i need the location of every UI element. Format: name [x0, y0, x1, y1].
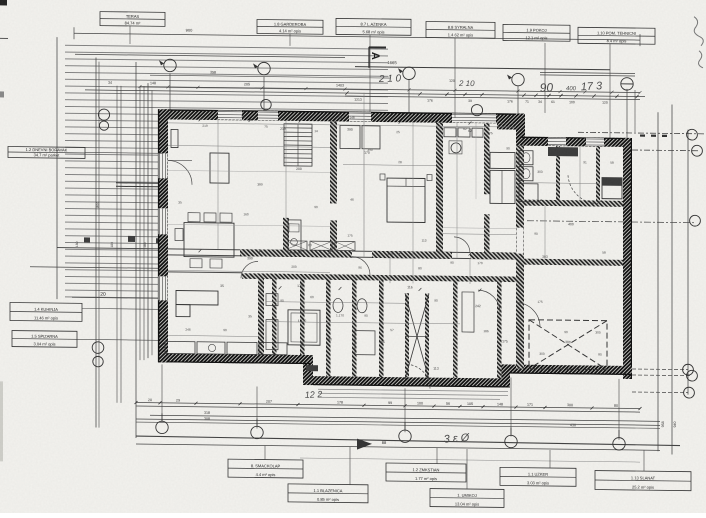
interior wall dining/bath vertical: [258, 278, 264, 354]
window openings top right wall: [548, 137, 566, 145]
room label box SMACKOLAP bottom: [228, 459, 303, 478]
bottom band top wall: [242, 273, 516, 282]
column marker mid top-left: [261, 99, 271, 110]
corridor wall leader across terrace: [57, 248, 168, 249]
dashed lines bottom right: [632, 368, 688, 371]
right vertical dimension line 1: [657, 112, 659, 451]
door arc hall: [478, 290, 500, 312]
sofa: [176, 291, 218, 306]
interior wall vertical main/right section: [516, 146, 524, 369]
tick slashes upper chain: [345, 91, 348, 94]
right section lower wall horizontal: [524, 259, 623, 266]
right vertical dimension line 3: [687, 130, 689, 395]
room label box SLANAT bottom: [595, 471, 691, 491]
right section wc cells: [519, 151, 533, 165]
door arc right section top: [568, 175, 598, 203]
column markers right edge: [687, 129, 698, 140]
room label box POM TEHNICKI: [578, 27, 655, 44]
corridor wall horizontal: [168, 249, 516, 253]
wc bottom band: [333, 298, 343, 312]
kitchen wall stub: [283, 218, 289, 253]
coffee table living room: [210, 153, 229, 183]
dining table: [184, 223, 234, 258]
dimension line 358: [150, 75, 390, 78]
hall cupboard: [462, 292, 474, 332]
bottom dimension chain 1: [136, 403, 640, 409]
dashed overhang line right top: [578, 132, 706, 134]
small tick marks scattered: [199, 118, 202, 121]
dimension line 900 top: [74, 33, 640, 40]
interior grid lines horizontal: [168, 145, 330, 147]
section cut arrow bottom: [357, 439, 372, 450]
left outer vertical dimension line: [56, 37, 58, 299]
leader from TERAS box: [129, 26, 131, 44]
column markers left small: [98, 109, 109, 120]
tv cabinet: [171, 129, 178, 147]
wall top main: [163, 109, 524, 123]
section mark letter A rotated: [368, 47, 370, 68]
left dark line pair: [116, 182, 168, 185]
interior wall vertical bedroom: [436, 123, 443, 258]
kitchen counter: [288, 220, 301, 253]
column markers bottom row: [156, 421, 168, 434]
stem under circle 627: [634, 90, 636, 132]
leader lines left boxes: [85, 151, 163, 154]
interior wall vertical bath partition: [484, 123, 490, 194]
line pair right of 1665: [540, 72, 635, 73]
room label box ZMUCIONI bottom: [386, 463, 466, 482]
room label box TERAS: [100, 12, 165, 27]
dimension chain upper: [140, 87, 640, 93]
left vertical dimension line 4: [147, 83, 149, 358]
page corner mark top-left: [0, 0, 7, 5]
left vertical dimension line 3: [135, 62, 137, 438]
handwritten squiggle top right: [694, 17, 703, 46]
dimension chain long: [85, 90, 645, 97]
column marker near step: [471, 104, 482, 115]
column marker top right with bar: [621, 78, 633, 91]
wardrobe lower: [490, 170, 515, 203]
wall right outer: [623, 138, 632, 379]
dark counter right section: [548, 147, 578, 156]
terrace hatch top band: [65, 43, 388, 111]
shaft cross pattern: [405, 293, 429, 379]
leader from box E: [544, 43, 546, 113]
shaft right section: [602, 178, 622, 199]
wall bottom left section: [158, 353, 310, 364]
grid stem lines from top markers: [169, 73, 171, 109]
room label box 1.9: [503, 24, 570, 41]
wall step connector bottom middle: [500, 364, 510, 387]
column markers left bottom: [92, 342, 104, 354]
room label box ZKER bottom: [500, 467, 576, 486]
room label box DNEVNI left: [8, 146, 85, 158]
bath counter row top: [444, 128, 456, 137]
porch hatch strip bottom: [318, 386, 508, 401]
wall bottom right section: [505, 364, 632, 375]
room label box BLAZENICA bottom: [288, 484, 368, 503]
leader lines bottom boxes: [264, 446, 266, 460]
bottom section line dark: [136, 436, 680, 446]
closet row bedroom: [340, 125, 360, 148]
door arc garage: [516, 303, 540, 327]
bottom band partitions: [272, 279, 277, 355]
wall left outer: [158, 109, 168, 362]
wall step connector top right: [516, 114, 525, 146]
room label box SPAVACA: [426, 22, 495, 39]
wall top right section: [520, 137, 632, 147]
left speck marks: [84, 237, 90, 242]
window openings left wall: [159, 153, 168, 178]
terrace left bottom boundary line: [30, 267, 168, 269]
page left edge marks: [0, 91, 4, 97]
staircase: [284, 124, 312, 166]
bottom dimension chain 2: [136, 406, 640, 412]
bathtub bottom band: [288, 310, 320, 345]
door arc corridor 1: [352, 257, 370, 275]
stair shaft walls: [405, 293, 409, 377]
shower right section: [519, 184, 538, 202]
kitchen counter row bottom-left: [165, 341, 195, 353]
washbasin cells bottom: [266, 294, 278, 306]
door gap right section wall: [517, 228, 524, 254]
column markers top: [164, 59, 176, 72]
room label box GARDEROBA: [257, 19, 323, 34]
dining chairs: [188, 213, 200, 222]
door arc corridor left: [241, 261, 258, 278]
dimension line secondary top-left: [75, 54, 345, 57]
window openings top wall: [218, 111, 242, 120]
bottom dimension chain 3: [150, 415, 660, 421]
garage dashed box: [529, 320, 607, 370]
door arc corridor 2: [454, 237, 470, 253]
right section room wall horizontal: [524, 200, 623, 207]
dash-dot axis line right section: [527, 221, 694, 223]
terrace hatch left band: [65, 110, 159, 301]
wall bottom middle: [313, 376, 509, 387]
right section partitions vertical: [556, 146, 560, 200]
interior grid lines vertical: [217, 120, 219, 249]
bed: [387, 178, 425, 222]
wardrobe upper: [490, 152, 515, 168]
room label box KUPAONICA: [336, 18, 411, 35]
ticks bottom chain: [135, 401, 138, 404]
closet row above corridor: [285, 241, 307, 250]
room label box KUHINJA left: [10, 303, 82, 322]
interior wall vertical living/hall: [330, 121, 337, 203]
bath wc circle: [451, 143, 461, 153]
left vertical dimension cluster: [98, 62, 100, 428]
night tables: [380, 174, 385, 180]
left vertical dimension line 2: [95, 58, 97, 428]
window sill line below top wall: [168, 123, 516, 127]
door arc entry: [406, 364, 430, 388]
interior guide lines: [168, 224, 330, 226]
dimension chain with small labels: [345, 96, 640, 100]
porch step block: [306, 365, 318, 371]
right vertical dimension line 2: [671, 104, 673, 454]
door arc terrace left: [168, 160, 192, 184]
bottom grid stems: [161, 364, 163, 422]
dimension line 1665: [355, 67, 610, 70]
leader lines top boxes: [289, 34, 291, 46]
room label box UMIKOJ bottom: [430, 489, 504, 508]
room label box SPIZA left: [12, 331, 77, 348]
bottom long line: [136, 419, 660, 425]
wall chunk below top wall near step: [497, 123, 520, 129]
bottom faint line: [136, 444, 660, 450]
wall step connector bottom left: [303, 355, 313, 385]
